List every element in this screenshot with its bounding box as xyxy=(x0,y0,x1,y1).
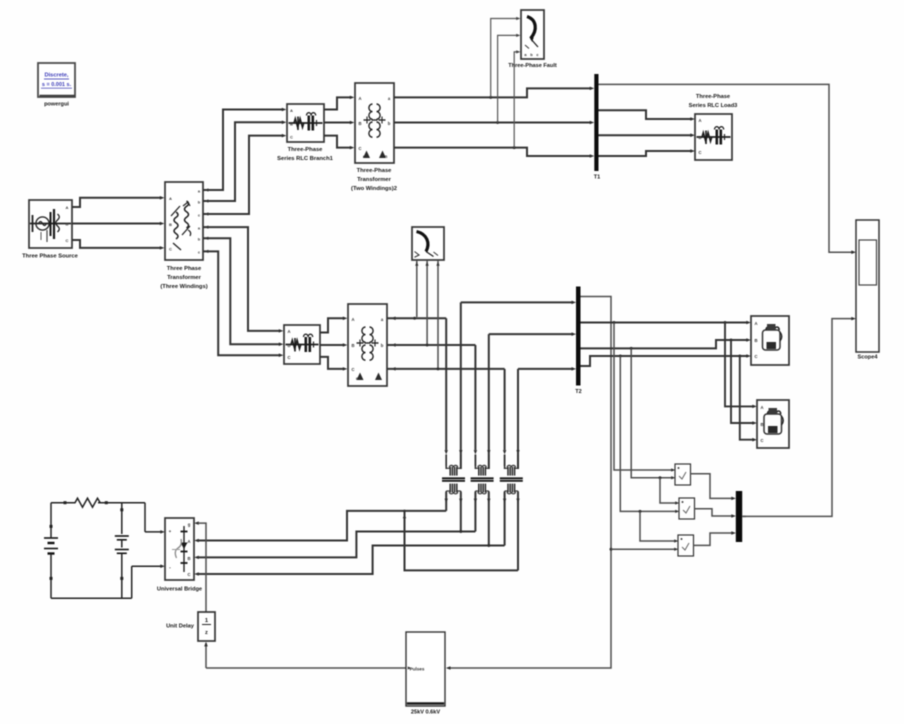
svg-text:Discrete,: Discrete, xyxy=(44,73,68,79)
svg-text:B: B xyxy=(187,556,190,561)
svg-text:g: g xyxy=(188,522,191,527)
svg-text:z: z xyxy=(205,630,208,636)
svg-text:A: A xyxy=(187,539,190,544)
svg-text:n: n xyxy=(385,154,388,159)
svg-text:B: B xyxy=(66,222,69,227)
svg-text:A: A xyxy=(760,405,763,410)
svg-text:C: C xyxy=(290,135,293,140)
svg-text:Three-Phase: Three-Phase xyxy=(288,147,324,153)
svg-text:C: C xyxy=(760,438,763,443)
svg-text:T1: T1 xyxy=(594,175,600,181)
svg-text:B: B xyxy=(358,121,361,126)
svg-text:+: + xyxy=(169,529,172,534)
svg-text:C: C xyxy=(66,238,69,243)
svg-text:Three-Phase Fault: Three-Phase Fault xyxy=(508,63,557,69)
svg-text:B: B xyxy=(351,343,354,348)
svg-text:Series RLC Load3: Series RLC Load3 xyxy=(689,103,738,109)
svg-text:Unit Delay: Unit Delay xyxy=(166,624,195,630)
svg-text:C: C xyxy=(358,146,361,151)
svg-text:A: A xyxy=(290,108,293,113)
svg-text:A: A xyxy=(754,321,757,326)
svg-text:C: C xyxy=(169,247,172,252)
svg-text:Pulses: Pulses xyxy=(410,667,425,672)
svg-text:A: A xyxy=(351,317,354,322)
svg-text:B: B xyxy=(698,135,701,140)
svg-text:s = 0.001 s.: s = 0.001 s. xyxy=(42,82,72,88)
svg-text:T2: T2 xyxy=(575,389,581,395)
svg-text:Universal Bridge: Universal Bridge xyxy=(157,587,202,593)
svg-text:b: b xyxy=(381,343,384,348)
svg-text:C: C xyxy=(351,367,354,372)
svg-text:Transformer: Transformer xyxy=(357,177,392,183)
svg-text:A: A xyxy=(66,205,69,210)
svg-text:C: C xyxy=(287,355,290,360)
svg-text:b: b xyxy=(388,121,391,126)
svg-text:Series RLC Branch1: Series RLC Branch1 xyxy=(277,156,334,162)
svg-text:Three Phase: Three Phase xyxy=(167,266,202,272)
svg-text:B: B xyxy=(754,338,757,343)
svg-text:25kV 0.6kV: 25kV 0.6kV xyxy=(411,710,441,716)
svg-text:C: C xyxy=(187,572,190,577)
svg-text:A: A xyxy=(358,96,361,101)
svg-text:A: A xyxy=(287,329,290,334)
svg-text:B: B xyxy=(287,343,290,348)
svg-text:n: n xyxy=(378,376,381,381)
svg-text:(Three Windings): (Three Windings) xyxy=(160,284,207,290)
svg-text:Three-Phase: Three-Phase xyxy=(357,168,393,174)
svg-text:B: B xyxy=(760,422,763,427)
svg-text:(Two Windings)2: (Two Windings)2 xyxy=(351,186,397,192)
svg-text:Three-Phase: Three-Phase xyxy=(696,94,730,100)
svg-text:B: B xyxy=(169,222,172,227)
svg-text:A: A xyxy=(169,196,172,201)
svg-text:C: C xyxy=(754,354,757,359)
svg-text:B: B xyxy=(290,122,293,127)
svg-text:powergui: powergui xyxy=(44,102,69,108)
svg-text:Three Phase Source: Three Phase Source xyxy=(22,254,79,260)
svg-text:C: C xyxy=(698,150,701,155)
svg-text:Scope4: Scope4 xyxy=(858,355,879,361)
svg-text:A: A xyxy=(698,118,701,123)
svg-text:Transformer: Transformer xyxy=(167,275,202,281)
